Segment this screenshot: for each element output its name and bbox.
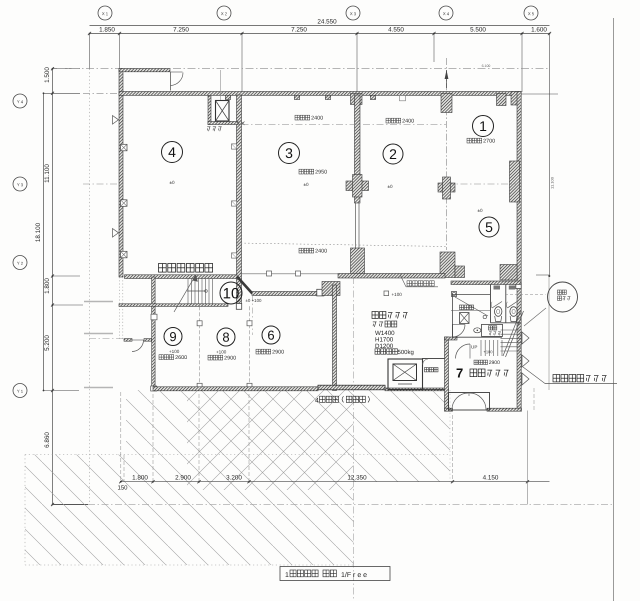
svg-text:X 5: X 5 bbox=[528, 11, 535, 16]
svg-text:11.100: 11.100 bbox=[44, 164, 51, 183]
svg-text:±0: ±0 bbox=[303, 182, 309, 187]
svg-text:1.600: 1.600 bbox=[531, 26, 547, 33]
svg-text:2900: 2900 bbox=[224, 356, 236, 362]
svg-text:X 2: X 2 bbox=[221, 11, 228, 16]
svg-text:3.200: 3.200 bbox=[226, 474, 242, 481]
svg-text:5: 5 bbox=[485, 219, 493, 235]
svg-text:7.250: 7.250 bbox=[173, 26, 189, 33]
svg-text:7.250: 7.250 bbox=[291, 26, 307, 33]
svg-text:1.800: 1.800 bbox=[132, 474, 148, 481]
svg-text:10: 10 bbox=[223, 285, 240, 302]
svg-text:X 1: X 1 bbox=[102, 11, 109, 16]
svg-text:+100: +100 bbox=[483, 349, 493, 354]
svg-text:1.850: 1.850 bbox=[99, 26, 115, 33]
svg-text:2: 2 bbox=[389, 146, 397, 162]
svg-text:UP: UP bbox=[471, 345, 477, 350]
svg-text:24.550: 24.550 bbox=[317, 18, 337, 25]
svg-text:5.500: 5.500 bbox=[470, 26, 486, 33]
svg-text:Y 1: Y 1 bbox=[17, 389, 24, 394]
svg-text:2400: 2400 bbox=[311, 116, 323, 122]
svg-text:+100: +100 bbox=[216, 350, 227, 355]
svg-text:±0: ±0 bbox=[387, 184, 393, 189]
svg-text:4.550: 4.550 bbox=[388, 26, 404, 33]
svg-text:2400: 2400 bbox=[315, 249, 327, 255]
svg-text:+100: +100 bbox=[391, 292, 402, 297]
svg-text:18.100: 18.100 bbox=[35, 222, 42, 242]
svg-text:5.200: 5.200 bbox=[44, 335, 51, 351]
svg-text:+100: +100 bbox=[169, 349, 180, 354]
svg-text:6.860: 6.860 bbox=[44, 432, 51, 448]
svg-text:3: 3 bbox=[285, 145, 293, 161]
svg-text:500kg: 500kg bbox=[397, 350, 413, 356]
svg-text:1/F r e e: 1/F r e e bbox=[341, 572, 367, 579]
svg-text:4: 4 bbox=[168, 144, 176, 160]
svg-text:Y 2: Y 2 bbox=[17, 261, 24, 266]
svg-text:±0 +100: ±0 +100 bbox=[245, 298, 262, 303]
svg-text:6: 6 bbox=[267, 328, 274, 343]
svg-text:X 3: X 3 bbox=[350, 11, 357, 16]
svg-text:2900: 2900 bbox=[272, 350, 284, 356]
svg-text:1: 1 bbox=[479, 118, 487, 134]
svg-text:4: 4 bbox=[315, 398, 319, 405]
svg-text:Y 4: Y 4 bbox=[17, 99, 24, 104]
svg-text:X 4: X 4 bbox=[443, 11, 450, 16]
svg-text:4.150: 4.150 bbox=[483, 474, 499, 481]
svg-text:1.500: 1.500 bbox=[44, 67, 51, 83]
svg-text:11.100: 11.100 bbox=[550, 176, 555, 189]
svg-text:9: 9 bbox=[169, 329, 176, 344]
svg-text:±0: ±0 bbox=[477, 208, 483, 213]
svg-text:1.800: 1.800 bbox=[44, 278, 51, 294]
svg-text:8: 8 bbox=[222, 330, 229, 345]
svg-text:2.900: 2.900 bbox=[175, 474, 191, 481]
svg-text:2900: 2900 bbox=[489, 360, 500, 366]
svg-text:12.350: 12.350 bbox=[347, 474, 367, 481]
svg-text:2700: 2700 bbox=[483, 139, 495, 145]
svg-text:2600: 2600 bbox=[175, 355, 187, 361]
svg-text:6.100: 6.100 bbox=[482, 64, 491, 68]
svg-text:±0: ±0 bbox=[169, 180, 175, 185]
svg-text:1: 1 bbox=[285, 572, 289, 579]
svg-text:150: 150 bbox=[117, 485, 128, 491]
svg-text:7: 7 bbox=[456, 366, 463, 381]
svg-text:Y 3: Y 3 bbox=[17, 182, 24, 187]
svg-text:2950: 2950 bbox=[315, 170, 327, 176]
svg-text:2400: 2400 bbox=[402, 119, 414, 125]
